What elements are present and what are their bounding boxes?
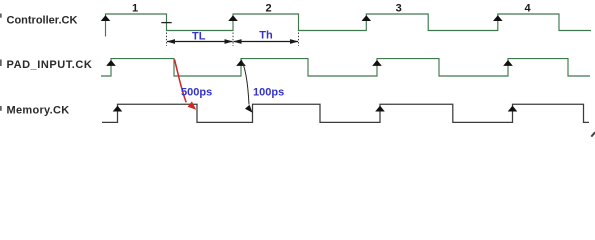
delay arrowhead 500ps [188, 101, 197, 109]
waveform Controller.CK [106, 14, 592, 37]
rising-edge arrow Controller rise4 [493, 15, 503, 21]
rising-edge arrow PAD rise2 [236, 60, 246, 66]
left-edge mark row1 [0, 14, 2, 18]
svg-text:500ps: 500ps [181, 86, 212, 98]
dimension arrowhead TL right [225, 39, 234, 44]
rising-edge arrow PAD rise3 [372, 60, 382, 66]
dimension line Th [234, 41, 299, 43]
rising-edge arrow Memory rise3 [375, 106, 385, 112]
extension dotted line at x=233 [232, 33, 234, 47]
svg-text:PAD_INPUT.CK: PAD_INPUT.CK [7, 59, 93, 71]
left-edge mark row2 [0, 60, 2, 67]
rising-edge arrow Memory rise4 [508, 106, 518, 112]
waveform PAD_INPUT.CK [101, 59, 590, 76]
svg-text:3: 3 [396, 3, 402, 15]
delay arrow 500ps (red curve) [175, 60, 187, 103]
svg-text:4: 4 [524, 3, 531, 15]
svg-text:Memory.CK: Memory.CK [7, 104, 70, 116]
tick mark on Controller first falling edge [161, 22, 171, 24]
svg-text:2: 2 [265, 3, 271, 15]
rising-edge arrow Memory rise1 [113, 106, 123, 112]
dimension arrowhead Th left [233, 39, 242, 44]
rising-edge arrow PAD rise1 [106, 60, 116, 66]
corner mark bottom-right [591, 132, 595, 136]
extension dotted line at x=298.5 [298, 33, 300, 47]
dimension arrowhead TL left [167, 39, 176, 44]
svg-text:Th: Th [259, 29, 273, 41]
svg-text:100ps: 100ps [253, 86, 284, 98]
rising-edge arrow Controller rise3 [362, 15, 372, 21]
rising-edge arrow Controller rise1 [101, 15, 111, 21]
waveform Memory.CK [102, 104, 589, 122]
extension dotted line at x=166.5 [166, 33, 168, 47]
rising-edge arrow Controller rise2 [228, 15, 238, 21]
dimension arrowhead Th right [290, 39, 299, 44]
left-edge mark row3 [0, 106, 2, 111]
delay arrow 100ps (black curve) [241, 60, 249, 105]
dimension line TL [167, 41, 233, 43]
rising-edge arrow PAD rise4 [503, 60, 513, 66]
svg-text:1: 1 [132, 3, 138, 15]
svg-text:TL: TL [192, 31, 206, 43]
svg-text:Controller.CK: Controller.CK [7, 15, 78, 27]
delay arrowhead 100ps [245, 105, 253, 113]
